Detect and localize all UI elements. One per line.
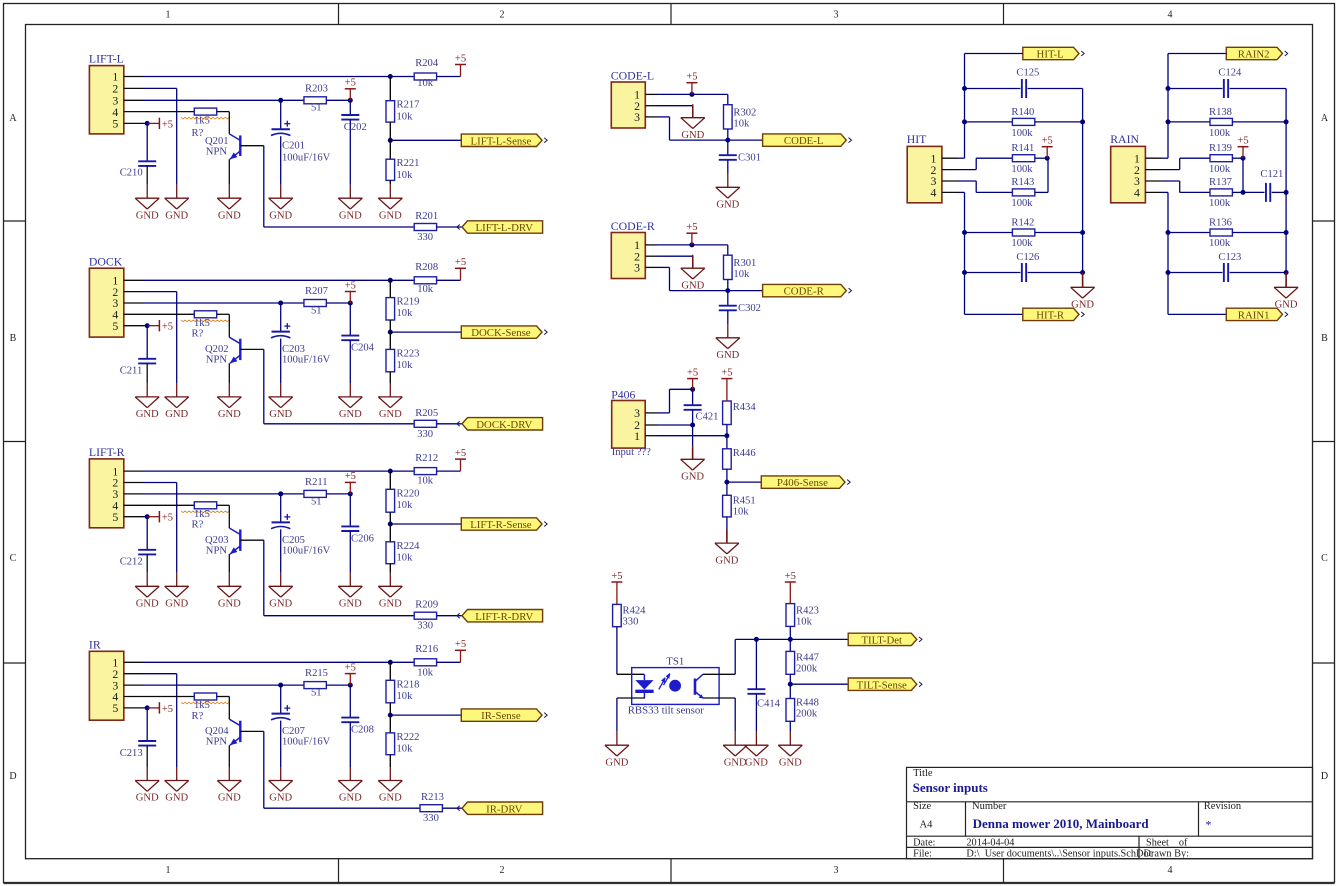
port LIFT-L-Sense [461,134,542,146]
wire LIFT-L pin1 row [144,76,414,78]
transistor body [239,721,241,742]
wire 1k5 to transistor [217,111,229,113]
wire LIFT-R pin2 to gnd rail [144,482,177,484]
svg-text:+5: +5 [686,222,697,233]
wire to TS1 [616,627,618,675]
svg-text:51: 51 [311,688,322,699]
svg-text:3: 3 [834,865,839,876]
svg-text:R217: R217 [397,100,420,111]
svg-text:NPN: NPN [206,355,228,366]
svg-text:C203: C203 [282,344,305,355]
wire 1k5 to transistor [217,504,229,506]
junction [725,288,730,293]
wire pin3 jog down [1162,180,1180,182]
svg-text:A: A [9,113,17,124]
right rail [1082,89,1084,273]
pin stubs [942,157,958,159]
svg-text:R201: R201 [415,211,438,222]
port DOCK-DRV [462,418,543,430]
svg-text:2: 2 [500,10,505,21]
svg-text:GND: GND [165,599,188,610]
svg-text:B: B [10,333,17,344]
svg-text:2: 2 [500,865,505,876]
wire 1k5 to transistor [217,313,229,315]
svg-text:C213: C213 [120,748,143,759]
wire IR pin1 row [144,661,414,663]
port IR-Sense [461,709,542,721]
wire to sense port [390,714,461,716]
power +5 [349,482,351,494]
pin stubs [1145,157,1161,159]
resistor R224 10k [386,542,395,564]
compile-warning squiggle [181,702,229,704]
svg-text:Drawn By:: Drawn By: [1144,848,1190,859]
svg-text:Date:: Date: [913,838,935,849]
svg-text:200k: 200k [796,663,818,674]
svg-text:NPN: NPN [206,737,228,748]
power +5 [460,268,462,280]
svg-text:GND: GND [136,599,159,610]
transistor base lead [240,145,263,147]
resistor R222 10k [386,733,395,755]
svg-text:+5: +5 [345,662,356,673]
svg-text:GND: GND [379,409,402,420]
IR pin stubs [124,661,144,663]
port RAIN2 [1226,47,1282,59]
svg-text:4: 4 [1134,186,1140,200]
svg-text:+5: +5 [455,448,466,459]
svg-text:+5: +5 [455,639,466,650]
svg-text:A: A [1321,113,1329,124]
resistor R301 10k [724,255,733,279]
svg-text:10k: 10k [397,308,414,319]
svg-text:100k: 100k [1011,128,1033,139]
transistor base lead [240,539,263,541]
svg-text:100k: 100k [1011,164,1033,175]
svg-text:4: 4 [1168,10,1173,21]
wire to gnd [692,425,694,448]
connector RAIN [1111,146,1146,202]
svg-text:C421: C421 [696,412,719,423]
svg-text:100uF/16V: 100uF/16V [282,545,331,556]
svg-text:10k: 10k [733,269,750,280]
svg-text:100k: 100k [1011,198,1033,209]
svg-text:GND: GND [779,757,802,768]
svg-text:Input ???: Input ??? [612,447,651,458]
svg-text:C206: C206 [351,533,374,544]
capacitor C206 [349,494,351,527]
divider rail [389,471,391,489]
wire LED cathode to gnd [616,698,618,732]
wire to DRV port [442,807,462,809]
wire DRV net [263,146,265,227]
wire [389,564,391,573]
port TILT-Sense [848,678,917,690]
wire up to +5 node [1047,158,1049,192]
svg-text:200k: 200k [796,708,818,719]
svg-text:R434: R434 [733,402,757,413]
svg-text:C: C [1321,553,1328,564]
svg-text:R212: R212 [415,453,438,464]
wire DOCK pin2 to gnd rail [144,291,177,293]
wire [389,755,391,767]
port CODE-L [763,134,847,146]
svg-text:Denna mower 2010, Mainboard: Denna mower 2010, Mainboard [973,816,1150,831]
wire pin1 to rail [958,157,965,159]
wire [326,99,350,101]
resistor R451 10k [726,482,728,495]
svg-text:LIFT-R-Sense: LIFT-R-Sense [470,519,532,531]
svg-text:1k5: 1k5 [194,700,210,711]
wire [389,332,391,349]
junction [1241,190,1246,195]
junction [788,682,793,687]
wire [1035,191,1048,193]
svg-text:5: 5 [112,319,118,333]
svg-text:1k5: 1k5 [194,115,210,126]
resistor R217 10k [386,101,395,122]
svg-text:51: 51 [311,496,322,507]
svg-text:GND: GND [218,409,241,420]
svg-text:Q201: Q201 [205,136,229,147]
svg-text:R213: R213 [421,792,444,803]
svg-text:RAIN1: RAIN1 [1238,310,1270,322]
junction [388,522,393,527]
resistor R143 100k [1012,189,1034,196]
ground [692,255,694,269]
wire IR pin2 to gnd rail [144,673,177,675]
capacitor C208 [349,685,351,718]
wire DOCK pin5 [144,325,147,327]
capacitor C414 [755,639,757,689]
port RAIN1 [1226,308,1282,320]
ground symbols [146,383,148,397]
resistor R213 330 [420,805,442,812]
svg-text:C210: C210 [120,168,143,179]
capacitor C213 [146,708,148,741]
wire pin3 jog down [958,180,976,182]
junction [278,491,283,496]
svg-text:C207: C207 [282,726,305,737]
divider rail [389,77,391,101]
svg-text:R?: R? [192,128,204,139]
wire LIFT-L pin2 to gnd rail [144,87,177,89]
capacitor C203 100uF/16V electrolytic [280,303,282,332]
capacitor C124 [1168,88,1222,90]
wire DOCK pin4 row [144,313,194,315]
svg-text:3: 3 [834,10,839,21]
resistor R220 10k [386,489,395,512]
wire to +5 [437,661,461,663]
svg-text:C204: C204 [351,343,375,354]
svg-text:GND: GND [724,757,747,768]
DOCK pin stubs [124,279,144,281]
pin stubs [645,412,657,414]
port P406-Sense [761,476,845,488]
svg-text:IR: IR [89,637,101,651]
svg-text:GND: GND [1275,300,1298,311]
svg-text:Number: Number [972,801,1007,812]
svg-text:C211: C211 [120,366,143,377]
wire pin1 [657,435,727,437]
wire [389,122,391,140]
power +5 [147,325,159,327]
wire top rail [965,53,1023,55]
svg-text:D: D [9,771,16,782]
wire [326,684,350,686]
resistor R140 100k [965,121,1013,123]
svg-text:GND: GND [136,409,159,420]
capacitor C123 [1168,272,1222,274]
power +5 [691,83,693,95]
svg-text:R223: R223 [397,348,420,359]
svg-text:GND: GND [218,793,241,804]
port TILT-Det [848,633,917,645]
svg-text:+5: +5 [162,322,173,333]
wire pin1 [657,244,728,246]
svg-text:10k: 10k [397,744,414,755]
resistor R215 51 [304,682,326,689]
wire bottom [965,313,1023,315]
port LIFT-L-DRV [462,221,543,233]
svg-text:+5: +5 [455,257,466,268]
svg-text:D:\ User documents\..\Sensor: D:\ User documents\..\Sensor inputs.SchD… [966,848,1153,859]
resistor R302 10k [724,105,733,129]
port LIFT-R-Sense [461,518,542,530]
svg-text:HIT-L: HIT-L [1037,49,1064,61]
wire pin4 to rail [1162,191,1169,193]
svg-text:R136: R136 [1209,217,1232,228]
TS1 tilt ball [669,680,681,692]
svg-text:R302: R302 [733,107,756,118]
svg-text:GND: GND [681,472,704,483]
svg-text:C202: C202 [344,122,367,133]
wire to sense port [390,523,461,525]
resistor R221 10k [386,159,395,180]
svg-text:Q203: Q203 [205,535,229,546]
svg-text:R143: R143 [1011,177,1034,188]
wire top rail [1168,53,1226,55]
svg-text:10k: 10k [397,691,414,702]
wire +5 node down [1242,158,1244,192]
svg-text:+5: +5 [611,571,622,582]
ground [789,732,791,746]
svg-text:100k: 100k [1209,128,1231,139]
svg-text:NPN: NPN [206,146,228,157]
svg-text:10k: 10k [397,552,414,563]
svg-text:10k: 10k [417,284,434,295]
wire pin2 to gnd [657,255,693,257]
svg-text:330: 330 [417,621,433,632]
TS1 phototransistor [694,679,697,695]
wire collector to TILT-Det [734,639,736,674]
svg-text:GND: GND [681,130,704,141]
svg-text:DOCK-DRV: DOCK-DRV [476,419,532,431]
transistor collector lead [228,697,230,720]
svg-text:HIT-R: HIT-R [1036,310,1065,322]
svg-text:CODE-R: CODE-R [611,219,655,233]
svg-text:TILT-Sense: TILT-Sense [857,679,907,691]
wire to gnd [789,721,791,731]
power +5 [349,292,351,304]
wire IR pin5 [144,707,147,709]
junction [1241,156,1246,161]
ground [616,732,618,746]
power +5 [616,582,618,604]
wire to DRV port [437,423,462,425]
wire [789,674,791,684]
svg-text:R139: R139 [1209,143,1232,154]
svg-text:C212: C212 [120,557,143,568]
power +5 [147,516,159,518]
transistor collector lead [228,112,230,134]
wire [389,715,391,733]
power +5 [460,65,462,77]
resistor R136 100k [1168,232,1210,234]
wire pin2 jog up [1162,169,1180,171]
svg-text:330: 330 [423,813,439,824]
junction [388,278,393,283]
svg-text:P406: P406 [611,388,635,402]
wire to +5 [437,279,461,281]
capacitor C211 [146,326,148,359]
svg-text:330: 330 [417,429,433,440]
resistor R? 1k5 base resistor [194,502,216,509]
svg-text:R215: R215 [305,668,328,679]
wire to sense port [390,139,461,141]
resistor R211 51 [304,490,326,497]
wire LIFT-L pin5 [144,122,147,124]
svg-text:+5: +5 [345,78,356,89]
svg-text:A4: A4 [920,820,934,831]
svg-text:C208: C208 [351,725,374,736]
svg-text:51: 51 [311,103,322,114]
svg-text:R?: R? [192,329,204,340]
junction [278,98,283,103]
svg-text:CODE-L: CODE-L [611,68,654,82]
svg-text:10k: 10k [417,668,434,679]
svg-text:R211: R211 [305,477,328,488]
svg-text:HIT: HIT [907,132,927,146]
port HIT-L [1023,47,1079,59]
svg-text:TILT-Det: TILT-Det [861,635,902,647]
svg-text:GND: GND [165,409,188,420]
svg-text:TS1: TS1 [666,655,684,667]
ground [734,732,736,746]
svg-text:R447: R447 [796,652,819,663]
wire pin2 [657,424,693,426]
svg-text:100k: 100k [1209,238,1231,249]
transistor emitter to gnd [228,554,230,573]
svg-text:C201: C201 [282,141,305,152]
svg-text:10k: 10k [796,616,813,627]
wire pin3 up [657,412,670,414]
svg-text:R207: R207 [305,286,328,297]
wire [389,512,391,524]
svg-text:1k5: 1k5 [194,509,210,520]
svg-text:GND: GND [269,409,292,420]
junction [145,514,150,519]
svg-text:R222: R222 [397,732,420,743]
svg-text:C125: C125 [1016,68,1039,79]
svg-text:C124: C124 [1218,68,1242,79]
capacitor C205 100uF/16V electrolytic [280,494,282,523]
svg-text:+5: +5 [687,367,698,378]
resistor R142 100k [965,232,1013,234]
svg-text:5: 5 [112,701,118,715]
wire bottom [1168,313,1226,315]
svg-text:GND: GND [716,200,739,211]
wire [789,626,791,639]
power +5 [460,650,462,662]
junction [724,480,729,485]
svg-text:10k: 10k [397,360,414,371]
svg-text:RAIN: RAIN [1110,132,1139,146]
wire to DRV port [437,615,462,617]
transistor collector lead [228,314,230,337]
svg-text:10k: 10k [733,119,750,130]
capacitor C207 100uF/16V electrolytic [280,685,282,714]
port HIT-R [1023,308,1079,320]
wire IR pin3 row [144,684,304,686]
svg-text:C121: C121 [1260,169,1283,180]
resistor R447 200k [789,639,791,651]
junction [388,138,393,143]
svg-text:100k: 100k [1209,164,1231,175]
transistor emitter to gnd [228,745,230,767]
svg-text:10k: 10k [397,170,414,181]
title block frame [907,767,1313,858]
capacitor C201 100uF/16V electrolytic [280,100,282,129]
svg-text:Size: Size [913,801,931,812]
svg-text:GND: GND [218,599,241,610]
TS1 right leads [703,673,735,675]
svg-text:4: 4 [930,186,936,200]
ground [1285,273,1287,288]
junction [1045,156,1050,161]
svg-text:of: of [1179,838,1188,849]
svg-text:C126: C126 [1016,252,1039,263]
junction [1166,86,1171,91]
svg-text:330: 330 [417,232,433,243]
wire pin1 to rail [1162,157,1169,159]
connector LIFT-R [89,459,123,528]
junction [690,423,695,428]
junction [388,660,393,665]
svg-text:R142: R142 [1011,217,1034,228]
power +5 [147,122,159,124]
svg-text:File:: File: [913,848,932,859]
svg-text:R219: R219 [397,297,420,308]
power +5 [147,707,159,709]
transistor base lead [240,730,263,732]
wire [326,493,350,495]
svg-text:100k: 100k [1209,198,1231,209]
junction [388,330,393,335]
resistor R141 100k [1012,155,1034,162]
connector LIFT-L [89,66,123,134]
svg-text:CODE-L: CODE-L [784,135,824,147]
wire to port [790,683,848,685]
pin stubs [645,93,657,95]
svg-text:Title: Title [913,768,933,779]
TS1 photon arrows [659,678,665,689]
svg-text:C302: C302 [738,303,761,314]
divider rail [389,280,391,297]
ground [727,324,729,338]
ground symbols [146,767,148,781]
svg-text:R?: R? [192,711,204,722]
